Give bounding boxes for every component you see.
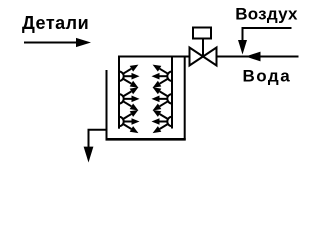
spray nozzle right bottom [152, 110, 173, 133]
svg-text:Воздух: Воздух [235, 4, 298, 23]
spray manifold left drop pipe [118, 56, 120, 129]
arrow: drain outflow down [84, 147, 94, 163]
valve V1 actuator box [193, 28, 211, 39]
spray nozzle left middle [119, 87, 140, 110]
spray nozzle left top [119, 65, 140, 88]
arrow: parts inflow [24, 42, 77, 44]
tank bottom (thick) [106, 138, 186, 141]
valve V1 body left triangle [190, 48, 204, 66]
valve V1 body right triangle [203, 48, 217, 66]
svg-text:Детали: Детали [22, 13, 89, 33]
arrow: air into water line [238, 40, 247, 55]
wire: drain pipe [89, 130, 107, 148]
spray nozzle right middle [152, 87, 173, 110]
svg-text:Вода: Вода [243, 66, 292, 85]
spray nozzle left bottom [119, 110, 140, 133]
wash tank (open-top bath) [107, 57, 185, 139]
spray nozzle right top [152, 65, 173, 88]
wire: water supply pipe [217, 56, 299, 58]
spray manifold right drop pipe [171, 56, 173, 129]
arrow: water flow left [246, 52, 261, 62]
wire: pipe from manifold to valve [118, 56, 190, 58]
valve V1 stem [202, 39, 204, 57]
wire: air line [243, 28, 292, 41]
